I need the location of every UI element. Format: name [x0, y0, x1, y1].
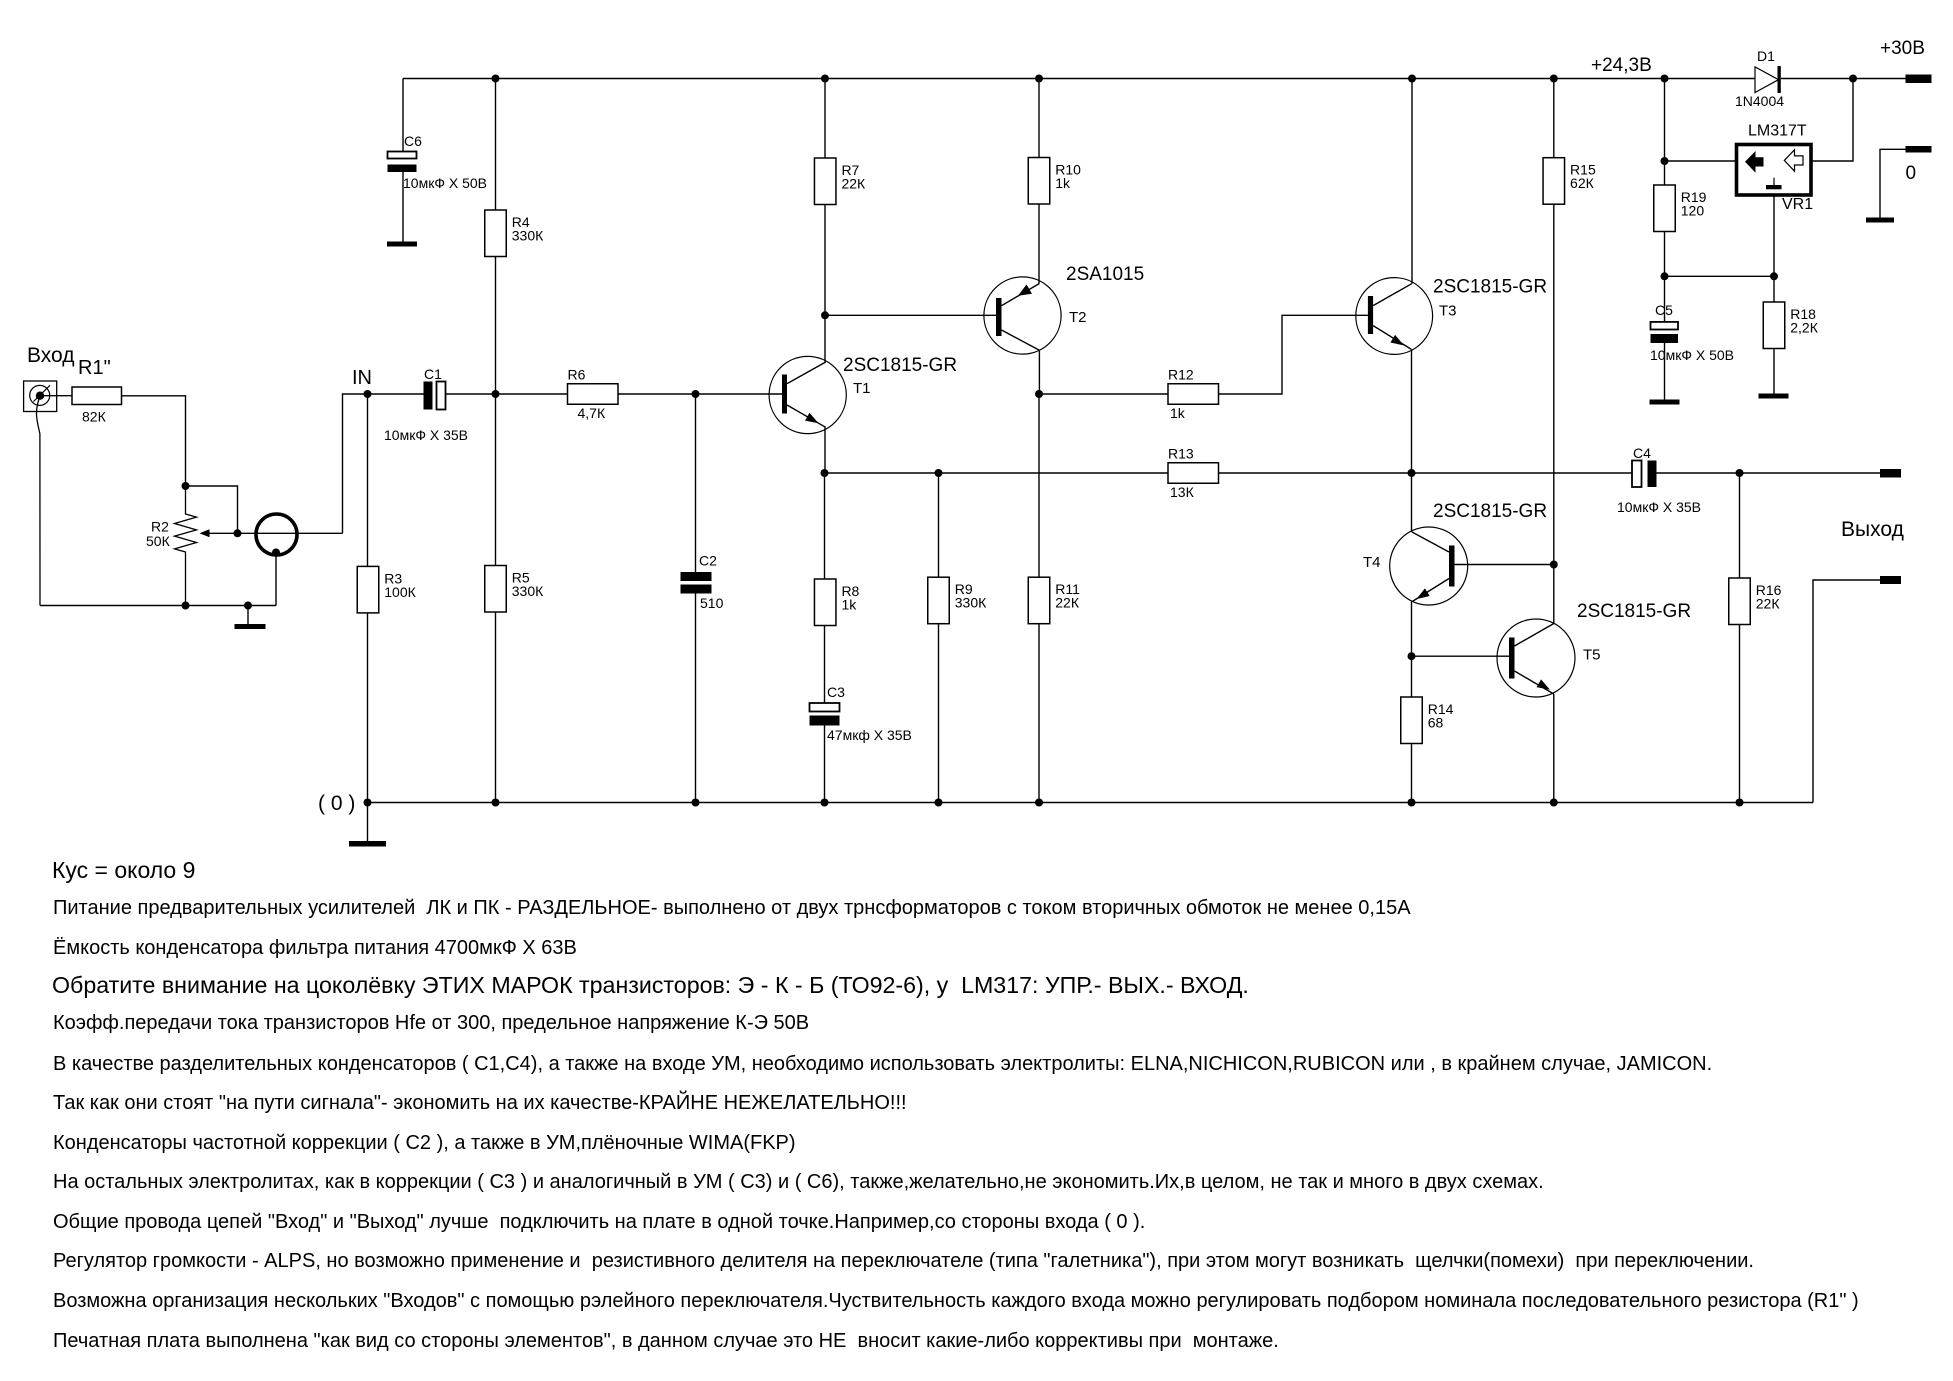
wire R6 to C2 node — [618, 393, 782, 395]
svg-text:4,7К: 4,7К — [578, 405, 606, 421]
wire T2 collector — [1038, 350, 1040, 394]
wire gnd stub — [247, 606, 249, 625]
svg-text:330К: 330К — [512, 583, 544, 599]
wire C6 bottom — [402, 172, 404, 242]
wire R3 to ground rail — [367, 613, 369, 803]
svg-text:Регулятор громкости - ALPS, но: Регулятор громкости - ALPS, но возможно … — [53, 1250, 1754, 1272]
svg-text:50К: 50К — [146, 533, 171, 549]
svg-text:2SA1015: 2SA1015 — [1066, 264, 1144, 285]
svg-text:+30В: +30В — [1880, 38, 1925, 59]
svg-text:68: 68 — [1428, 715, 1444, 731]
junction rail-R4 — [492, 75, 500, 83]
ground C5 — [1650, 400, 1680, 405]
svg-text:T3: T3 — [1439, 303, 1457, 320]
junction T2 collector node — [1035, 390, 1043, 398]
wire LM317 input pin — [1811, 79, 1853, 162]
wire R4node to R5 — [495, 394, 497, 566]
junction T1 collector node — [821, 311, 829, 319]
svg-text:IN: IN — [352, 367, 372, 389]
svg-text:T1: T1 — [853, 380, 871, 397]
resistor R9 — [928, 577, 950, 624]
svg-text:C4: C4 — [1633, 445, 1651, 461]
wire jack ground — [36, 400, 40, 606]
svg-text:Выход: Выход — [1841, 518, 1904, 541]
wire R12 to T3 base — [1219, 315, 1368, 394]
svg-text:10мкФ X 50В: 10мкФ X 50В — [403, 175, 487, 191]
junction rail-T3 — [1408, 75, 1416, 83]
ground R18 — [1759, 394, 1789, 399]
terminal out lower — [1880, 576, 1901, 584]
wire T5 base — [1412, 655, 1510, 657]
connector shield circle — [256, 514, 297, 555]
wire rail to R7 — [824, 79, 826, 159]
svg-text:В качестве разделительных конд: В качестве разделительных конденсаторов … — [53, 1053, 1712, 1075]
junction rail-R19 — [1661, 75, 1669, 83]
junction gnd-R11 — [1035, 799, 1043, 807]
junction signal-C2 — [692, 390, 700, 398]
capacitor C1 — [424, 382, 433, 410]
svg-text:C2: C2 — [699, 553, 717, 569]
junction gnd-C2 — [692, 799, 700, 807]
svg-text:2SC1815-GR: 2SC1815-GR — [1577, 601, 1691, 622]
junction R13line-R9 — [935, 469, 943, 477]
resistor R8 — [814, 579, 836, 626]
svg-text:1N4004: 1N4004 — [1735, 93, 1784, 109]
wire C6 top — [402, 79, 404, 152]
ground input — [235, 624, 266, 629]
wire C1 to R4 node — [446, 393, 568, 395]
svg-text:Обратите внимание на цоколёвку: Обратите внимание на цоколёвку ЭТИХ МАРО… — [52, 972, 1249, 998]
svg-text:2SC1815-GR: 2SC1815-GR — [1433, 501, 1547, 522]
wire 0 to ground — [1880, 149, 1906, 217]
svg-text:22К: 22К — [1756, 596, 1781, 612]
wire C2 bottom — [695, 594, 697, 803]
junction IN — [364, 390, 372, 398]
wire ground rail — [368, 802, 1814, 804]
svg-text:2,2К: 2,2К — [1790, 320, 1818, 336]
svg-text:Возможна организация нескольки: Возможна организация нескольких "Входов"… — [53, 1290, 1859, 1312]
resistor R3 — [357, 566, 379, 613]
wire R7 to T1 collector — [824, 205, 826, 363]
wire R15 to T4 base node — [1553, 204, 1555, 564]
wire R13 to T34 node — [1219, 472, 1412, 474]
ground R3 — [349, 841, 386, 847]
svg-text:VR1: VR1 — [1782, 196, 1813, 213]
junction gnd-R14 — [1408, 799, 1416, 807]
resistor R18 — [1763, 302, 1785, 349]
wire left bottom line — [40, 605, 276, 607]
wire R1 to corner — [122, 396, 186, 486]
wire T2 base — [825, 314, 996, 316]
svg-text:22К: 22К — [841, 176, 866, 192]
wire R18 bottom — [1773, 349, 1775, 394]
wire C5node to R18node — [1665, 275, 1775, 277]
junction gnd-R3 — [364, 799, 372, 807]
connector jack — [24, 381, 57, 412]
wire R5 to ground rail — [495, 612, 497, 803]
resistor R7 — [814, 158, 836, 205]
svg-text:2SC1815-GR: 2SC1815-GR — [843, 355, 957, 376]
svg-text:1k: 1k — [841, 597, 857, 613]
capacitor C5 — [1651, 322, 1679, 330]
wire R4 to signal — [495, 257, 497, 395]
diode D1 — [1755, 67, 1779, 93]
svg-text:+24,3В: +24,3В — [1591, 55, 1652, 76]
wire C4 to out terminal — [1657, 472, 1881, 474]
capacitor C6 — [388, 152, 417, 159]
junction R18 node — [1770, 272, 1778, 280]
svg-text:T2: T2 — [1069, 309, 1087, 326]
wire R10 to T2 emitter — [1038, 204, 1040, 284]
wire R9 top — [938, 473, 940, 577]
transistor T4 — [1390, 527, 1468, 605]
junction rail-LM317in — [1849, 75, 1857, 83]
junction gnd-R9 — [935, 799, 943, 807]
svg-text:10мкФ X 35В: 10мкФ X 35В — [1617, 499, 1701, 515]
svg-text:Общие провода цепей "Вход" и ": Общие провода цепей "Вход" и "Выход" луч… — [53, 1211, 1145, 1233]
transistor T2 — [984, 277, 1061, 354]
svg-text:13К: 13К — [1170, 484, 1195, 500]
junction wiper — [234, 529, 242, 537]
wire out lower to ground rail — [1813, 580, 1880, 803]
junction gnd stub — [244, 602, 252, 610]
wire R2 wiper feed — [186, 486, 238, 533]
wire shield up to IN — [343, 394, 368, 533]
junction gnd-R16 — [1736, 799, 1744, 807]
svg-text:82К: 82К — [82, 409, 107, 425]
wire rail to R15 — [1553, 79, 1555, 158]
svg-text:Печатная плата выполнена "как: Печатная плата выполнена "как вид со сто… — [53, 1330, 1279, 1352]
junction rail-R15 — [1550, 75, 1558, 83]
capacitor C4 — [1632, 461, 1642, 488]
resistor R15 — [1543, 158, 1565, 205]
resistor R1" — [72, 387, 122, 405]
resistor R14 — [1401, 697, 1423, 744]
svg-text:Ёмкость конденсатора фильтра п: Ёмкость конденсатора фильтра питания 470… — [53, 937, 577, 959]
svg-text:Кус = около 9: Кус = около 9 — [52, 857, 195, 883]
capacitor C3 — [810, 703, 840, 712]
potentiometer R2 zigzag — [175, 486, 197, 606]
svg-text:На остальных электролитах, как: На остальных электролитах, как в коррекц… — [53, 1171, 1544, 1193]
wire rail to T3 collector — [1411, 79, 1413, 284]
wire R9 to ground rail — [938, 624, 940, 803]
wire C5 top — [1664, 276, 1666, 322]
svg-text:2SC1815-GR: 2SC1815-GR — [1433, 277, 1547, 298]
resistor R11 — [1028, 577, 1050, 624]
ground 0 — [1866, 218, 1894, 223]
wire R3 gnd stub — [367, 803, 369, 842]
wire T3 emitter — [1411, 349, 1413, 473]
wire T5 collector — [1553, 565, 1555, 624]
transistor T3 — [1356, 278, 1433, 355]
svg-text:1k: 1k — [1170, 405, 1186, 421]
svg-text:LM317T: LM317T — [1748, 123, 1807, 140]
wire R11 to ground rail — [1038, 624, 1040, 803]
svg-text:510: 510 — [700, 595, 724, 611]
wire C2 top — [695, 394, 697, 572]
junction gnd-T5 — [1550, 799, 1558, 807]
terminal 0 — [1906, 146, 1932, 153]
junction R19-LM317out — [1661, 157, 1669, 165]
svg-text:R1": R1" — [78, 357, 111, 379]
resistor R13 — [1168, 463, 1219, 484]
svg-text:( 0 ): ( 0 ) — [318, 792, 355, 815]
wire R14 to ground rail — [1411, 744, 1413, 803]
svg-text:R13: R13 — [1168, 446, 1194, 462]
wire IN to C1 — [368, 393, 424, 395]
wire T5 emitter — [1553, 694, 1555, 803]
wire T34node down — [1411, 473, 1413, 532]
wire out line to C4 — [1412, 472, 1633, 474]
svg-text:22К: 22К — [1055, 595, 1080, 611]
resistor R5 — [485, 566, 507, 613]
svg-text:120: 120 — [1681, 203, 1705, 219]
wire IN to R3 — [367, 394, 369, 566]
wire T1e to R8 — [824, 473, 826, 579]
svg-text:C1: C1 — [424, 366, 442, 382]
svg-text:62К: 62К — [1570, 175, 1595, 191]
resistor R10 — [1028, 158, 1050, 205]
svg-text:Так как они стоят "на пути сиг: Так как они стоят "на пути сигнала"- эко… — [53, 1090, 907, 1114]
wire wiper to shield circle — [238, 532, 343, 534]
junction T4 base-R15 — [1550, 561, 1558, 569]
junction gnd-C3 — [821, 799, 829, 807]
wire T1e to R13 — [825, 472, 1169, 474]
transistor T5 — [1497, 619, 1575, 697]
svg-text:1k: 1k — [1055, 175, 1071, 191]
svg-text:T5: T5 — [1583, 647, 1601, 664]
junction T4e-T5 base — [1408, 652, 1416, 660]
wire R8 to C3 — [824, 626, 826, 704]
junction R2 top — [182, 482, 190, 490]
wire R16 top — [1739, 473, 1741, 578]
svg-text:Питание предварительных усилит: Питание предварительных усилителей ЛК и … — [53, 897, 1411, 919]
wire T2c to R11 — [1038, 394, 1040, 577]
transistor T1 — [769, 356, 846, 433]
wire R16 to ground rail — [1739, 625, 1741, 803]
svg-text:330К: 330К — [512, 228, 544, 244]
resistor R12 — [1168, 384, 1219, 405]
junction R13line-T34 — [1408, 469, 1416, 477]
wire T2c to R12 — [1039, 393, 1168, 395]
svg-text:10мкФ X 35В: 10мкФ X 35В — [384, 427, 468, 443]
junction signal-R4 — [492, 390, 500, 398]
resistor R6 — [568, 384, 619, 405]
svg-text:Вход: Вход — [27, 344, 75, 367]
wire rail to R19 — [1664, 79, 1666, 186]
svg-text:100К: 100К — [384, 584, 416, 600]
svg-text:10мкФ X 50В: 10мкФ X 50В — [1650, 347, 1734, 363]
junction rail-R10 — [1035, 75, 1043, 83]
capacitor C2 — [681, 572, 712, 581]
wire jack to R1 — [44, 395, 72, 397]
svg-text:T4: T4 — [1363, 554, 1381, 571]
resistor R16 — [1729, 578, 1751, 625]
svg-text:Коэфф.передачи тока транзистор: Коэфф.передачи тока транзисторов Hfe от … — [53, 1012, 809, 1034]
terminal +30V — [1906, 75, 1932, 84]
wire LM317 output pin — [1665, 160, 1737, 162]
svg-text:330К: 330К — [955, 595, 987, 611]
wire shield to bottom line — [275, 553, 277, 606]
junction C4-R16 — [1736, 469, 1744, 477]
junction T1 emitter node — [821, 469, 829, 477]
wire LM317 adj pin — [1773, 195, 1775, 276]
svg-text:47мкф X 35В: 47мкф X 35В — [827, 727, 912, 743]
wire T4 base — [1455, 564, 1554, 566]
wire C5 bottom — [1664, 343, 1666, 400]
junction shield bottom — [272, 549, 280, 557]
svg-text:C6: C6 — [404, 133, 422, 149]
wire T1 emitter — [824, 427, 826, 473]
wire +24,3V rail — [403, 78, 1755, 80]
wire T4 emitter — [1411, 602, 1413, 698]
terminal out upper — [1880, 469, 1901, 478]
junction rail-R7 — [821, 75, 829, 83]
svg-text:0: 0 — [1906, 163, 1917, 184]
wire rail to R4 — [495, 79, 497, 211]
wire R18 top — [1773, 276, 1775, 302]
svg-text:R6: R6 — [568, 367, 586, 383]
wire C3 to ground rail — [824, 726, 826, 803]
svg-text:Конденсаторы частотной коррекц: Конденсаторы частотной коррекции ( C2 ),… — [53, 1132, 796, 1154]
resistor R4 — [485, 210, 507, 257]
resistor R19 — [1654, 185, 1676, 232]
svg-text:C5: C5 — [1655, 302, 1673, 318]
ground C6 — [387, 242, 417, 247]
svg-text:D1: D1 — [1757, 48, 1775, 64]
svg-text:R12: R12 — [1168, 367, 1194, 383]
junction R2 bottom — [182, 602, 190, 610]
svg-text:C3: C3 — [827, 684, 845, 700]
wire R19 to C5 node — [1664, 232, 1666, 277]
regulator VR1 LM317T — [1737, 145, 1812, 196]
wire rail to R10 — [1038, 79, 1040, 158]
wire rail right of D1 to +30V — [1781, 78, 1906, 80]
junction gnd-R5 — [492, 799, 500, 807]
junction C5 node — [1661, 272, 1669, 280]
R2 wiper arrow — [202, 532, 238, 534]
